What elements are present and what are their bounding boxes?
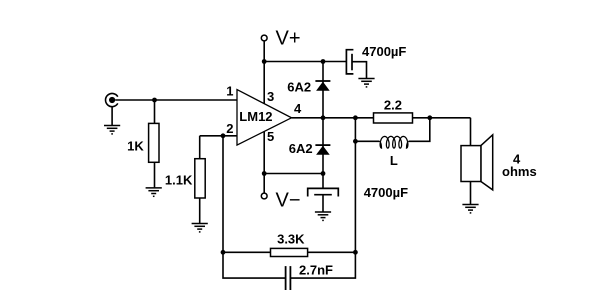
wire cap row left (223, 252, 286, 278)
svg-text:2.7nF: 2.7nF (299, 262, 333, 277)
svg-text:1K: 1K (127, 139, 144, 154)
node 2.2 / L junction right (427, 115, 432, 120)
wire 1K bottom stem (154, 162, 156, 187)
svg-text:ohms: ohms (502, 164, 537, 179)
node V+ rail / pin3 (262, 59, 267, 64)
svg-text:V−: V− (276, 189, 301, 211)
terminal V- (261, 193, 267, 199)
wire L branch left (355, 140, 379, 142)
node diode/output (321, 115, 326, 120)
wire input row to pin 1 (115, 99, 237, 101)
wire 1.1K top stem (199, 136, 201, 159)
node input junction (152, 98, 157, 103)
svg-text:5: 5 (267, 129, 274, 144)
node pin2 junction (221, 133, 226, 138)
wire bottom cap to ground (322, 195, 324, 212)
wire 3.3K row right (308, 251, 356, 253)
wire top cap to ground (352, 62, 367, 78)
resistor 3.3K (271, 248, 308, 256)
terminal V+ (261, 35, 267, 41)
node feedback right (353, 250, 358, 255)
wire V- terminal stem (263, 174, 265, 194)
wire pin 2 row (200, 135, 237, 137)
svg-text:L: L (390, 153, 398, 168)
resistor 1.1K (195, 159, 205, 198)
svg-text:4700µF: 4700µF (364, 185, 408, 200)
speaker LS1 (461, 135, 493, 190)
node L branch split (353, 139, 358, 144)
node feedback left (221, 250, 226, 255)
resistor 1K (149, 123, 159, 162)
diode D2 6A2 (bottom) (315, 145, 330, 155)
svg-text:LM12: LM12 (239, 109, 272, 124)
connector J1 input jack (106, 93, 118, 125)
wire pin 5 stem to V- rail (263, 132, 265, 174)
wire pin 3 stem to V+ rail (263, 62, 265, 105)
svg-text:4700µF: 4700µF (362, 44, 406, 59)
wire V+ rail (264, 61, 346, 63)
svg-text:4: 4 (294, 101, 302, 116)
svg-text:2.2: 2.2 (384, 97, 402, 112)
ground (speaker) (462, 205, 478, 213)
svg-text:1: 1 (226, 84, 233, 99)
ground (below 1.1K) (192, 224, 208, 232)
capacitor C1 4700uF (top) (346, 50, 353, 74)
ground (bottom cap) (315, 212, 331, 220)
node V+ rail / diode (321, 59, 326, 64)
wire V+ stem (263, 41, 265, 62)
wire V- rail (264, 173, 323, 175)
resistor 2.2 (374, 113, 413, 123)
svg-text:2: 2 (226, 121, 233, 136)
wire 1K top stem (154, 100, 156, 123)
wire 1.1K bottom stem (199, 198, 201, 223)
wire top diode branch (322, 62, 324, 118)
wire speaker to ground (470, 182, 472, 205)
ground (top cap) (358, 79, 374, 87)
wire output row (292, 117, 374, 119)
svg-text:6A2: 6A2 (289, 141, 313, 156)
diode D1 6A2 (top) (315, 81, 330, 91)
wire pin2 node vertical (222, 136, 224, 253)
op-amp U1 LM12 (237, 90, 292, 146)
svg-text:6A2: 6A2 (287, 79, 311, 94)
capacitor 2.7nF (286, 266, 291, 290)
wire 3.3K row left (223, 251, 271, 253)
wire to speaker (470, 118, 472, 146)
inductor L (355, 136, 408, 148)
svg-text:3: 3 (267, 89, 274, 104)
wire bottom cap stem (322, 174, 324, 189)
ground (input connector) (104, 126, 120, 134)
ground (below 1K) (146, 188, 162, 196)
node V- rail / diode (321, 171, 326, 176)
wire L branch right (409, 118, 430, 142)
svg-text:V+: V+ (276, 28, 301, 50)
capacitor C2 4700uF (bottom) (308, 188, 339, 196)
wire feedback vertical upper (354, 118, 356, 253)
svg-text:3.3K: 3.3K (277, 232, 305, 247)
wire output row right of 2.2 (413, 117, 471, 119)
node output/feedback (353, 115, 358, 120)
wire bottom diode branch (322, 118, 324, 174)
node V- rail / pin5 (262, 171, 267, 176)
svg-text:1.1K: 1.1K (165, 172, 193, 187)
wire cap row right (290, 252, 355, 278)
